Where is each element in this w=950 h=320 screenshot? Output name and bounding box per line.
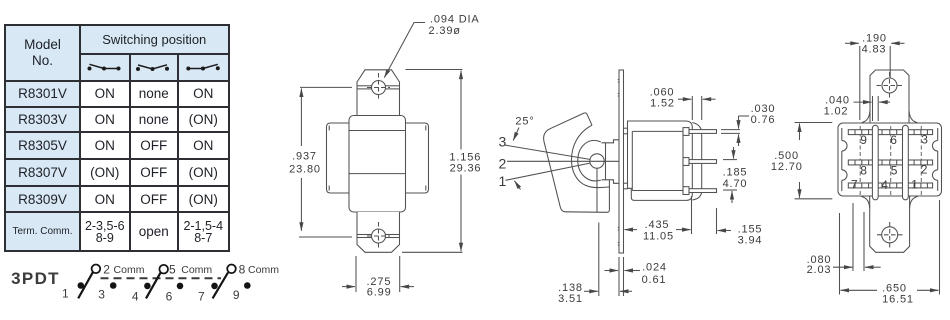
switching position table bbox=[4, 24, 230, 252]
dimension .435/11.05 bbox=[625, 196, 692, 234]
svg-text:6: 6 bbox=[166, 290, 173, 304]
25 degree angle arrows bbox=[513, 128, 520, 190]
dimension .024/0.61 bbox=[605, 257, 641, 296]
svg-text:1: 1 bbox=[911, 178, 919, 192]
svg-text:0.76: 0.76 bbox=[751, 114, 776, 126]
switch symbol: center off bbox=[130, 54, 179, 81]
svg-text:7: 7 bbox=[198, 290, 205, 304]
svg-text:3: 3 bbox=[921, 133, 929, 147]
front bottom mounting tab bbox=[357, 212, 400, 252]
dimension .500/12.70 bbox=[795, 123, 833, 199]
svg-text:9: 9 bbox=[860, 133, 868, 147]
pole 1 switch bbox=[78, 265, 117, 299]
svg-text:2: 2 bbox=[103, 262, 110, 276]
back body inner edge lines and notches bbox=[842, 128, 938, 191]
svg-text:2: 2 bbox=[498, 156, 507, 172]
svg-text:3: 3 bbox=[98, 288, 105, 302]
front body bbox=[349, 116, 406, 213]
dimension .138/3.51 bbox=[584, 223, 632, 297]
back bottom hole bbox=[877, 222, 903, 248]
svg-text:12.70: 12.70 bbox=[771, 161, 803, 173]
svg-text:.435: .435 bbox=[645, 219, 670, 231]
position labels 3 2 1 bbox=[498, 133, 507, 189]
dimension .275/6.99 bbox=[342, 256, 414, 292]
switch symbol: thrown left bbox=[80, 54, 130, 81]
boss face line bbox=[605, 143, 607, 180]
svg-text:7: 7 bbox=[851, 178, 859, 192]
dimension .937/23.80 bbox=[299, 87, 352, 237]
back top hole bbox=[877, 72, 903, 99]
column centerlines bbox=[860, 126, 921, 195]
svg-text:25°: 25° bbox=[515, 116, 534, 128]
svg-text:5: 5 bbox=[169, 262, 176, 276]
dimension .190/4.83 bbox=[845, 43, 905, 120]
rocker paddle bbox=[544, 113, 610, 212]
front left flange bbox=[327, 123, 350, 193]
svg-text:3PDT: 3PDT bbox=[11, 269, 60, 288]
front top hole .094 bbox=[367, 73, 390, 101]
dimension .155/3.94 bbox=[717, 208, 732, 234]
svg-text:.094 DIA: .094 DIA bbox=[430, 14, 480, 26]
dimension .030/0.76 bbox=[721, 116, 749, 146]
svg-text:Comm: Comm bbox=[181, 264, 212, 276]
mounting plate/bracket bbox=[618, 70, 624, 253]
terminal row 2 bbox=[848, 160, 932, 165]
side cover layer bbox=[692, 123, 701, 201]
svg-text:23.80: 23.80 bbox=[289, 164, 321, 176]
svg-text:8: 8 bbox=[239, 262, 246, 276]
pole 2 switch bbox=[144, 265, 183, 298]
front right flange bbox=[406, 123, 429, 193]
case mounting lugs through bracket bbox=[624, 128, 628, 189]
svg-text:1: 1 bbox=[498, 173, 507, 189]
front top mounting tab bbox=[357, 70, 400, 116]
terminal row 1 bbox=[848, 130, 932, 135]
svg-text:4: 4 bbox=[881, 178, 889, 192]
dimension .185/4.70 bbox=[723, 147, 737, 203]
svg-text:1: 1 bbox=[62, 287, 69, 301]
contact slot bars bbox=[872, 125, 908, 200]
svg-text:5: 5 bbox=[891, 164, 899, 178]
svg-text:.024: .024 bbox=[642, 262, 667, 274]
svg-text:9: 9 bbox=[233, 288, 240, 302]
back top tab fillets bbox=[862, 111, 917, 123]
dimension 1.156/29.36 bbox=[402, 70, 463, 253]
svg-text:1.52: 1.52 bbox=[650, 98, 675, 110]
svg-text:Comm: Comm bbox=[114, 264, 145, 276]
back body bbox=[838, 123, 942, 196]
svg-text:6: 6 bbox=[890, 133, 898, 147]
pivot circle bbox=[590, 154, 604, 168]
leader .094 DIA bbox=[384, 23, 425, 78]
side terminal pins bbox=[689, 130, 717, 193]
dimension .080/2.03 bbox=[833, 203, 881, 271]
svg-text:8: 8 bbox=[860, 164, 868, 178]
svg-text:2.39ø: 2.39ø bbox=[429, 25, 461, 37]
side body inner wall bbox=[632, 128, 689, 195]
svg-text:29.36: 29.36 bbox=[450, 163, 482, 175]
svg-text:6.99: 6.99 bbox=[367, 287, 392, 299]
svg-text:Comm: Comm bbox=[248, 264, 279, 276]
dimension .650/16.51 bbox=[840, 200, 940, 295]
switch symbol: thrown right bbox=[178, 54, 229, 81]
svg-text:4.83: 4.83 bbox=[862, 44, 887, 56]
svg-text:2.03: 2.03 bbox=[807, 264, 832, 276]
3PDT title bbox=[11, 269, 60, 288]
back top mounting tab bbox=[870, 70, 909, 123]
pole 3 switch bbox=[211, 265, 250, 299]
position line 2 bbox=[507, 160, 619, 162]
svg-text:0.61: 0.61 bbox=[642, 274, 667, 286]
svg-text:3.94: 3.94 bbox=[738, 235, 763, 247]
svg-text:16.51: 16.51 bbox=[882, 294, 914, 306]
bushing neck bbox=[602, 140, 620, 184]
rocker parting line bbox=[596, 168, 598, 211]
dimension text labels bbox=[289, 14, 929, 306]
svg-text:11.05: 11.05 bbox=[643, 231, 674, 243]
back bottom tab fillets bbox=[861, 197, 917, 209]
back bottom mounting tab bbox=[870, 196, 910, 252]
terminal labels bbox=[62, 262, 279, 303]
svg-text:3.51: 3.51 bbox=[558, 293, 583, 305]
svg-text:4: 4 bbox=[132, 290, 139, 304]
svg-text:.185: .185 bbox=[723, 167, 748, 179]
svg-text:4.70: 4.70 bbox=[723, 178, 748, 190]
position line 3 bbox=[506, 145, 591, 159]
dimension .060/1.52 bbox=[678, 96, 716, 120]
svg-text:2: 2 bbox=[921, 163, 929, 177]
front bottom hole bbox=[367, 222, 390, 250]
svg-text:1.02: 1.02 bbox=[824, 106, 849, 118]
terminal row 3 bbox=[848, 183, 932, 188]
common dashed bus bbox=[101, 277, 222, 279]
back view terminal numbers bbox=[851, 133, 929, 193]
dimension .040/1.02 bbox=[854, 96, 891, 121]
svg-text:.937: .937 bbox=[292, 151, 317, 163]
side body outer case bbox=[628, 121, 693, 200]
svg-text:3: 3 bbox=[498, 133, 507, 149]
rocker boss arcs bbox=[571, 125, 609, 187]
position line 1 bbox=[506, 163, 591, 180]
